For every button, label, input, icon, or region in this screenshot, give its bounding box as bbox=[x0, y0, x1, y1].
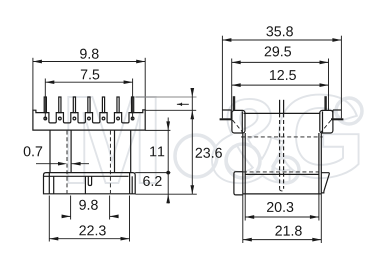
small pin-height dim marks bbox=[177, 103, 189, 105]
dimension 21.8 (outer width) bbox=[242, 194, 244, 243]
right view: bottom edge bbox=[243, 193, 321, 195]
left view: flange inner top line bbox=[44, 175, 129, 177]
right view: side walls (double lines) bbox=[242, 133, 244, 194]
right view: hidden edges (dashed horizontals) bbox=[241, 136, 323, 138]
right view: left corner block bbox=[232, 110, 245, 133]
dimension 0.7 (wall thickness) bbox=[24, 146, 42, 156]
dimension 9.8 (bottom, winding width) bbox=[70, 196, 72, 220]
dimension 20.3 (inner width) bbox=[244, 194, 246, 221]
right view: center slot (solid above, hidden below) bbox=[279, 100, 281, 114]
right view: bottom-right snap hook bbox=[321, 173, 329, 193]
right view: right corner block bbox=[320, 110, 333, 133]
left view: winding waist inner walls bbox=[70, 130, 72, 173]
right view: bottom-left tab bbox=[234, 172, 243, 195]
left view: bobbin body outline with castellated pin seats bbox=[33, 110, 145, 130]
left view: flange inner steps bbox=[48, 173, 50, 194]
right view: right mounting ear bbox=[333, 109, 342, 111]
dimension 9.8 (top, body width) bbox=[32, 58, 34, 110]
left view: flange center slot bbox=[88, 176, 91, 185]
dimension 12.5 bbox=[232, 84, 329, 86]
dimension 7.5 (pin row, between end pin holes) bbox=[44, 79, 46, 120]
right view: left block chamfer (dashed diagonal) bbox=[233, 120, 243, 132]
left view: 7 terminal pins bbox=[44, 97, 46, 113]
dimension 22.3 (flange width) bbox=[48, 196, 50, 242]
watermark rings bbox=[175, 98, 362, 183]
left view: pin seat holes bbox=[44, 117, 47, 120]
left view: winding waist outer walls bbox=[49, 130, 51, 173]
dimension 11 (right side) bbox=[145, 129, 170, 131]
watermark logo text M&G (outlined) bbox=[68, 97, 155, 183]
dimension 23.6 (overall height) bbox=[136, 96, 197, 98]
left view: bottom flange bbox=[44, 173, 136, 194]
dimension 6.2 (flange height) bbox=[167, 173, 169, 195]
right view: left mounting ear bbox=[223, 109, 232, 111]
right view: right block chamfer (dashed diagonal) bbox=[321, 120, 331, 132]
dimension 35.8 (overall width with ears) bbox=[221, 36, 223, 119]
dimension 29.5 bbox=[231, 59, 233, 111]
right view: inner shelf line bbox=[245, 173, 319, 175]
right view: body top edge (center) bbox=[244, 112, 321, 114]
left view: hidden center lines (dashed) bbox=[66, 131, 68, 194]
right view: terminal pins (side) bbox=[233, 96, 235, 110]
